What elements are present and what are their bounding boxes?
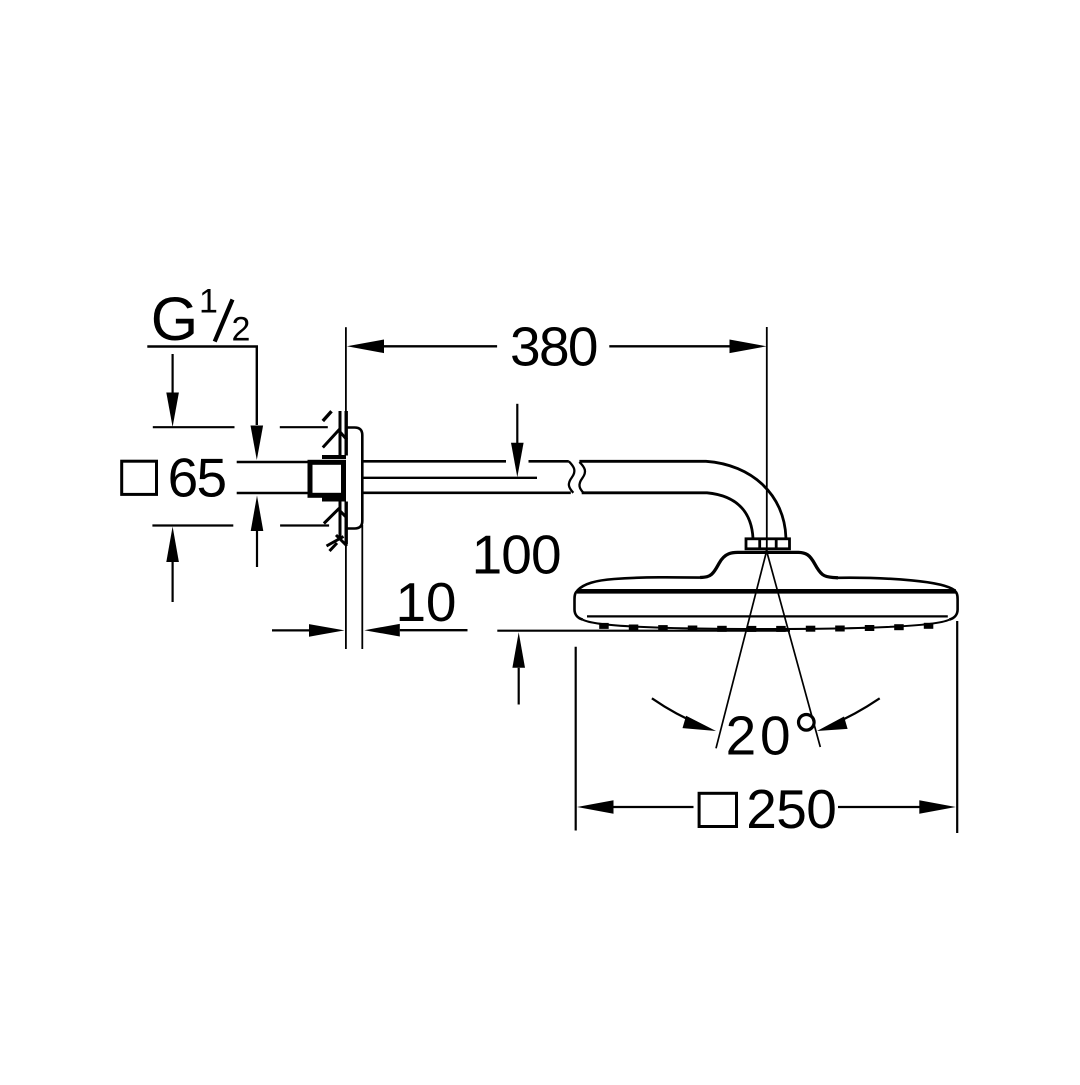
wall hatch chevron upper (323, 430, 347, 447)
svg-text:2: 2 (232, 311, 251, 349)
down arrow of 65 dim at x=256.8 (251, 426, 264, 461)
svg-text:380: 380 (510, 316, 599, 378)
wall hatch tick top (323, 411, 332, 421)
angle arc arrow right (817, 698, 880, 731)
angle arc arrow left (652, 698, 716, 731)
lower extension line y=525.5 (152, 524, 329, 526)
leader line under G 1/2 (147, 347, 256, 426)
spray angle line left (716, 550, 767, 749)
dim 380 right extension line (766, 327, 768, 552)
up arrow at x=172.6 to lower ext line (166, 527, 179, 603)
dim 100 down arrow (511, 404, 524, 478)
fitting collar top (322, 455, 346, 459)
wall flange escutcheon (348, 428, 363, 529)
spray face arc (583, 620, 950, 629)
shower head left cap (575, 590, 583, 619)
svg-text:G: G (151, 285, 198, 353)
nozzle ticks (599, 623, 933, 632)
svg-text:10: 10 (396, 571, 457, 633)
65 dim upper line y=462 (237, 461, 308, 464)
shower head right cap (949, 590, 957, 619)
dim 250 right extension line (956, 621, 958, 833)
shower arm right section top edge and elbow outer curve (579, 461, 786, 537)
label square 65 (122, 447, 227, 509)
shower head top curve left (577, 577, 700, 590)
svg-text:100: 100 (472, 524, 562, 586)
break squiggle right (579, 462, 585, 493)
shower arm right section bottom edge and elbow inner curve (582, 493, 753, 539)
wall line upper thin (345, 327, 347, 412)
wall line lower thin (345, 544, 347, 649)
spray angle line right (766, 550, 820, 748)
up arrow of 65 dim at x=257 (251, 496, 264, 568)
label square 250 (699, 778, 837, 840)
svg-text:65: 65 (168, 447, 228, 509)
wall double line lower (340, 502, 346, 545)
shower arm top edge (gap at 100-arrow) (362, 460, 569, 463)
arrow down from G label at x=172.6 to upper ext line (166, 354, 179, 427)
wall hatch end mark (327, 535, 348, 551)
wall hatch chevron lower (324, 509, 346, 523)
dim 10 line and arrows (272, 624, 468, 637)
svg-text:1: 1 (199, 283, 218, 321)
upper extension line y=427 (153, 426, 328, 428)
shower head neck dome (700, 552, 838, 577)
dim 250 line (577, 800, 956, 814)
shower arm bottom edge (362, 491, 571, 494)
svg-text:250: 250 (746, 778, 837, 840)
shower arm middle line (362, 477, 537, 479)
shower head bottom edge (587, 615, 948, 617)
dim 380 line (347, 340, 767, 354)
label 20 deg (726, 705, 815, 767)
break squiggle left (569, 461, 575, 493)
shower head thick rim band (577, 589, 956, 594)
datum line under shower head (497, 630, 790, 632)
fitting collar bottom (322, 498, 346, 502)
square union fitting (310, 462, 344, 495)
flange edge extension line down (361, 525, 363, 649)
65 dim lower line y=493 (237, 492, 308, 495)
connection nut (746, 539, 790, 549)
dim 250 left extension line (575, 647, 577, 831)
dim 100 up arrow (512, 632, 525, 704)
label G 1/2 (151, 283, 251, 353)
wall double line upper (340, 411, 346, 456)
shower head top curve right (838, 578, 955, 591)
